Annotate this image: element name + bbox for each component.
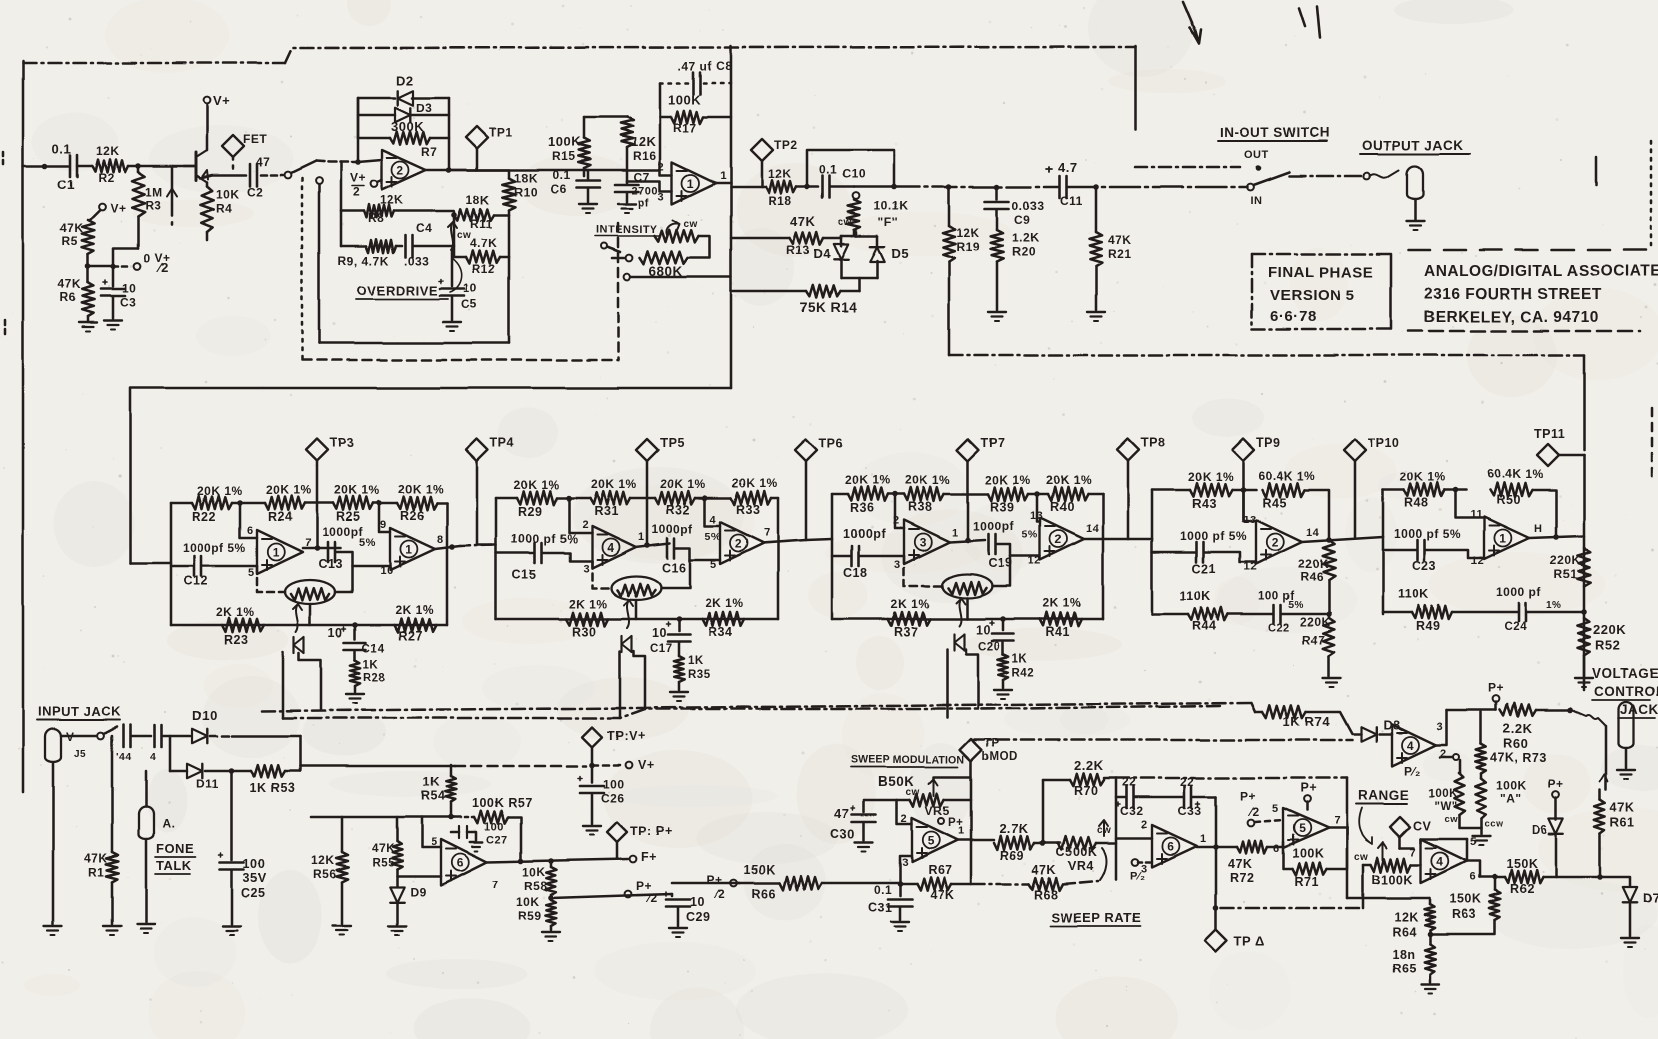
svg-text:12K: 12K bbox=[380, 193, 404, 207]
wire C2-switch bbox=[261, 174, 283, 177]
wire fb top bbox=[659, 83, 662, 117]
svg-text:1K: 1K bbox=[423, 775, 440, 789]
wire C22-R46 bbox=[1281, 613, 1329, 616]
wire R42-gnd bbox=[1002, 680, 1005, 688]
resistor R71 100K bbox=[1292, 863, 1326, 876]
svg-text:20K 1%: 20K 1% bbox=[660, 477, 706, 491]
svg-text:R27: R27 bbox=[398, 629, 422, 643]
wire R69 right bbox=[1034, 842, 1060, 845]
svg-text:14: 14 bbox=[1086, 523, 1100, 535]
svg-text:100K: 100K bbox=[1292, 847, 1324, 861]
svg-text:20K 1%: 20K 1% bbox=[514, 478, 560, 492]
svg-text:R39: R39 bbox=[990, 500, 1014, 514]
sheet border top-left dash-dot bbox=[23, 62, 285, 65]
svg-text:R32: R32 bbox=[666, 503, 690, 517]
svg-text:R3: R3 bbox=[145, 198, 161, 212]
wire C29-gnd bbox=[677, 907, 680, 926]
svg-text:6·6·78: 6·6·78 bbox=[1270, 308, 1316, 325]
wire TP8 stem bbox=[1127, 461, 1130, 539]
svg-text:1: 1 bbox=[687, 177, 694, 191]
wire R14 row bbox=[731, 290, 806, 293]
wire R14 right bbox=[840, 290, 859, 293]
svg-text:R68: R68 bbox=[1034, 888, 1058, 902]
wire st4 minus drop bbox=[1243, 490, 1256, 521]
wire st4b minus drop bbox=[1455, 490, 1484, 518]
svg-text:11: 11 bbox=[1470, 509, 1483, 521]
wire VR5 right bbox=[944, 799, 971, 802]
wire fb up bbox=[659, 117, 662, 170]
test point TP4 bbox=[466, 439, 488, 461]
svg-text:R20: R20 bbox=[1012, 245, 1036, 259]
svg-text:75K R14: 75K R14 bbox=[800, 300, 857, 315]
svg-text:1000pf: 1000pf bbox=[652, 522, 694, 536]
svg-text:ccw: ccw bbox=[1484, 819, 1504, 830]
wire C25-gnd bbox=[231, 870, 234, 924]
svg-text:R24: R24 bbox=[268, 510, 292, 524]
svg-text:100: 100 bbox=[603, 777, 625, 791]
resistor R14 75K bbox=[806, 285, 840, 298]
wire TP:P+ stem bbox=[616, 842, 619, 859]
terminal P+/2 bbox=[625, 891, 632, 898]
svg-text:C26: C26 bbox=[601, 791, 625, 805]
wire ldr1 stem bbox=[309, 604, 312, 625]
svg-text:R5: R5 bbox=[62, 234, 78, 248]
wire D11 left bbox=[170, 770, 187, 773]
pen scribble mark 2 bbox=[1299, 6, 1320, 38]
ground C26 bbox=[583, 825, 601, 827]
node TP5 out bbox=[644, 542, 650, 548]
transistor Q1 FET bbox=[195, 152, 198, 180]
svg-text:BERKELEY, CA. 94710: BERKELEY, CA. 94710 bbox=[1424, 309, 1599, 326]
wire R68 right bbox=[1063, 881, 1098, 884]
svg-text:10K: 10K bbox=[216, 187, 240, 201]
wire st3 minus drop bbox=[895, 494, 904, 528]
terminal V+/2 opamp bbox=[371, 181, 378, 188]
terminal P+ u10 bbox=[1304, 796, 1311, 803]
ground R59 bbox=[542, 931, 560, 933]
resistor R60 2.2K bbox=[1500, 703, 1536, 716]
sheet border right dashes 2 bbox=[1651, 408, 1654, 478]
svg-text:10: 10 bbox=[463, 281, 477, 295]
resistor R26 20K bbox=[397, 496, 437, 510]
wire R45 right bbox=[1304, 490, 1329, 539]
svg-text:C4: C4 bbox=[416, 221, 432, 235]
resistor R29 20K bbox=[496, 497, 517, 500]
resistor R45 60.4K bbox=[1262, 483, 1304, 497]
svg-text:P+: P+ bbox=[1300, 781, 1317, 795]
wire C31-gnd bbox=[899, 907, 902, 920]
wire R20-gnd bbox=[996, 262, 999, 310]
svg-text:C11: C11 bbox=[1060, 194, 1083, 208]
svg-text:C33: C33 bbox=[1178, 804, 1202, 818]
ground C5 bbox=[443, 321, 461, 323]
svg-text:P+: P+ bbox=[707, 873, 723, 887]
wire right-edge drop bbox=[1583, 355, 1586, 450]
wire R57 fb bbox=[451, 816, 474, 819]
potentiometer VR4 C500K bbox=[1058, 837, 1096, 850]
node R3 top bbox=[135, 163, 141, 169]
svg-text:R11: R11 bbox=[470, 217, 493, 231]
wire R40 right bbox=[1088, 493, 1103, 496]
capacitor C1 bbox=[69, 155, 72, 177]
svg-text:D2: D2 bbox=[396, 73, 414, 88]
wire u11 box bbox=[1400, 847, 1414, 850]
wire C15 to plus bbox=[542, 553, 592, 561]
svg-text:47K: 47K bbox=[58, 277, 82, 291]
terminal switch pivot bbox=[1247, 184, 1254, 191]
wire comp out up bbox=[1434, 710, 1447, 745]
diode D9 bbox=[390, 887, 404, 902]
svg-text:1: 1 bbox=[273, 546, 280, 560]
svg-text:TP9: TP9 bbox=[1256, 436, 1280, 450]
svg-text:1000 pf 5%: 1000 pf 5% bbox=[1180, 529, 1247, 543]
resistor R56 12K bbox=[336, 852, 349, 882]
ground R52 bbox=[1575, 677, 1593, 679]
svg-text:R61: R61 bbox=[1610, 816, 1634, 830]
svg-text:C13: C13 bbox=[318, 557, 342, 571]
resistor R41 2K bbox=[1040, 612, 1082, 626]
terminal jack tie bbox=[1364, 173, 1371, 180]
svg-text:220K: 220K bbox=[1300, 615, 1331, 629]
wire switch to jack bbox=[1289, 175, 1362, 178]
wire R38-R39 bbox=[944, 493, 988, 496]
svg-text:220K: 220K bbox=[1593, 622, 1626, 637]
svg-text:2.7K: 2.7K bbox=[999, 821, 1029, 836]
ground input jack bbox=[44, 925, 62, 927]
wire fb right vertical bbox=[448, 98, 451, 170]
potentiometer 100K A bbox=[1475, 779, 1486, 819]
svg-text:2: 2 bbox=[1272, 536, 1279, 550]
svg-text:47K: 47K bbox=[84, 851, 108, 865]
node out fb bbox=[446, 167, 452, 173]
svg-text:1K: 1K bbox=[1012, 653, 1028, 665]
svg-text:C1: C1 bbox=[57, 177, 75, 192]
wire R15 bottom bbox=[583, 168, 586, 176]
svg-text:D5: D5 bbox=[891, 246, 909, 261]
svg-text:D9: D9 bbox=[410, 885, 426, 899]
wire bus to R74 bbox=[1255, 711, 1262, 714]
wire R64 top bbox=[1347, 897, 1430, 900]
svg-text:R30: R30 bbox=[572, 625, 596, 639]
resistor R72 47K bbox=[1237, 841, 1267, 854]
wire capb-D10 bbox=[162, 735, 190, 738]
terminal pot F top bbox=[853, 193, 860, 200]
svg-text:20K 1%: 20K 1% bbox=[845, 473, 891, 487]
trimmer stub bbox=[171, 166, 174, 215]
svg-text:F+: F+ bbox=[641, 850, 657, 864]
resistor R32 20K bbox=[655, 491, 695, 505]
diode D6 bbox=[1549, 819, 1563, 834]
svg-text:20K 1%: 20K 1% bbox=[1046, 473, 1092, 487]
margin tick a bbox=[2, 152, 5, 168]
svg-text:18K: 18K bbox=[514, 171, 538, 185]
wiper ldr2 bbox=[627, 600, 629, 628]
wire phone jack tip bbox=[145, 771, 148, 807]
node R47 top bbox=[1326, 611, 1332, 617]
wire right drop bbox=[508, 257, 511, 343]
wire R24-R25 bbox=[305, 502, 333, 505]
svg-text:R33: R33 bbox=[736, 503, 760, 517]
svg-text:IN: IN bbox=[1250, 195, 1262, 207]
test point TP9 bbox=[1232, 439, 1254, 461]
svg-text:47K: 47K bbox=[1108, 233, 1132, 247]
wire overdrive input bbox=[316, 161, 358, 162]
wire comp out right bbox=[1440, 756, 1452, 759]
wire V+ to FET drain bbox=[206, 104, 209, 150]
wire fb box left mid bbox=[357, 98, 360, 138]
svg-text:C15: C15 bbox=[512, 568, 536, 582]
wire C19 right bbox=[996, 544, 1040, 556]
resistor R42 1K bbox=[1002, 641, 1005, 654]
wire ldr1 left stub bbox=[257, 566, 285, 592]
svg-text:10: 10 bbox=[652, 626, 667, 640]
ground D9 bbox=[388, 925, 406, 927]
svg-text:12: 12 bbox=[1471, 555, 1484, 567]
svg-text:C29: C29 bbox=[686, 910, 710, 924]
svg-text:5: 5 bbox=[248, 567, 255, 579]
node input junction bbox=[42, 163, 48, 169]
svg-text:1K R74: 1K R74 bbox=[1283, 714, 1330, 729]
resistor R1 47K bbox=[106, 852, 119, 882]
ground C7 bbox=[618, 203, 636, 205]
svg-text:3: 3 bbox=[1437, 721, 1444, 733]
wire R21-gnd bbox=[1095, 266, 1098, 310]
wire R55-D9 bbox=[396, 869, 399, 886]
wire int left stub bbox=[612, 257, 625, 260]
svg-text:2K 1%: 2K 1% bbox=[395, 603, 434, 617]
svg-text:4.7K: 4.7K bbox=[470, 236, 497, 250]
svg-text:R10: R10 bbox=[514, 185, 538, 199]
wire TP7 stem bbox=[967, 461, 970, 539]
wire R46-R47 bbox=[1328, 580, 1331, 614]
wire C18 to plus bbox=[859, 555, 904, 558]
resistor R34 2K bbox=[702, 612, 744, 626]
capacitor C2 47 bbox=[249, 164, 252, 186]
wire F bottom bbox=[853, 230, 856, 236]
svg-text:R4: R4 bbox=[216, 201, 232, 215]
svg-text:R38: R38 bbox=[908, 500, 932, 514]
svg-text:1: 1 bbox=[1499, 532, 1506, 546]
terminal F+ bbox=[630, 856, 637, 863]
ground C25 bbox=[223, 925, 241, 927]
wire R12 right bbox=[500, 256, 509, 259]
ground R56 bbox=[333, 925, 351, 927]
node fb bbox=[355, 159, 361, 165]
wire R5-R6 bbox=[87, 254, 90, 282]
wire W top bbox=[1459, 772, 1460, 775]
resistor R59 10K bbox=[550, 895, 553, 900]
capacitor C3 10 bbox=[112, 266, 115, 286]
wire st1b out bbox=[435, 546, 460, 549]
test point TP:P+ bbox=[607, 822, 627, 842]
resistor R67 47K bbox=[900, 883, 917, 886]
svg-text:R8: R8 bbox=[368, 211, 384, 225]
resistor R24 20K bbox=[265, 496, 305, 510]
svg-text:47K: 47K bbox=[1610, 801, 1634, 815]
wire overdrive bottom bbox=[319, 342, 509, 345]
svg-text:2316 FOURTH STREET: 2316 FOURTH STREET bbox=[1424, 286, 1602, 303]
svg-text:300K: 300K bbox=[391, 119, 424, 134]
node st4b minus bbox=[1452, 487, 1458, 493]
resistor R23 2K bbox=[222, 618, 264, 632]
resistor R12 4.7K bbox=[454, 256, 466, 259]
capacitor C11 4.7 bbox=[1058, 176, 1061, 198]
node st3 minus bbox=[892, 491, 898, 497]
wire R57 right bbox=[508, 817, 521, 861]
wire input line bbox=[23, 165, 68, 168]
svg-text:3: 3 bbox=[894, 559, 901, 571]
wire source-C2 bbox=[200, 175, 246, 178]
op-amp U1 mixer bbox=[672, 162, 716, 204]
wire stage2 frame left bbox=[495, 498, 498, 619]
svg-text:20K 1%: 20K 1% bbox=[197, 484, 243, 498]
svg-text:2.2K: 2.2K bbox=[1074, 758, 1104, 773]
wire FET TP stem bbox=[232, 157, 235, 173]
wire R35-gnd bbox=[678, 682, 681, 690]
svg-text:"A": "A" bbox=[1500, 792, 1522, 806]
svg-text:10: 10 bbox=[380, 565, 393, 577]
test point TP8 bbox=[1117, 439, 1139, 461]
svg-text:R71: R71 bbox=[1294, 875, 1318, 889]
wire U8 out bbox=[956, 839, 994, 842]
wire D9-gnd bbox=[396, 904, 399, 924]
wire R6-gnd bbox=[87, 316, 90, 322]
diode box top bbox=[841, 235, 877, 238]
wiper R11 cw bbox=[451, 222, 453, 250]
svg-text:C6: C6 bbox=[550, 182, 566, 196]
wire TP5 stem bbox=[646, 461, 649, 543]
svg-text:D4: D4 bbox=[813, 246, 831, 261]
node R19 bbox=[946, 184, 952, 190]
op-amp U5b stage3 bbox=[1040, 518, 1084, 560]
wire R52-gnd bbox=[1583, 656, 1586, 676]
svg-text:12K: 12K bbox=[311, 853, 335, 867]
resistor R37 2K bbox=[888, 612, 930, 626]
wire osc out row bbox=[1197, 846, 1237, 849]
wire R19 down bbox=[948, 262, 951, 355]
wire R7 right bbox=[430, 137, 449, 140]
resistor R38 20K bbox=[904, 487, 944, 501]
op-amp U5a stage3 bbox=[904, 520, 950, 564]
svg-text:V+: V+ bbox=[638, 758, 655, 772]
svg-text:TP5: TP5 bbox=[660, 436, 684, 450]
resistor R66 150K bbox=[738, 882, 780, 885]
svg-text:R72: R72 bbox=[1230, 871, 1254, 885]
svg-text:5: 5 bbox=[928, 834, 935, 848]
svg-text:R41: R41 bbox=[1046, 625, 1070, 639]
svg-text:10: 10 bbox=[122, 281, 136, 295]
svg-text:20K 1%: 20K 1% bbox=[1188, 470, 1234, 484]
svg-text:5: 5 bbox=[1470, 836, 1477, 848]
resistor R3 1M bbox=[137, 166, 140, 172]
wire out to right edge bbox=[1583, 455, 1586, 690]
wire stage3 frame left bbox=[831, 494, 834, 619]
wire TP6 stem bbox=[805, 461, 808, 540]
wire R32-R33 bbox=[695, 497, 731, 500]
svg-text:R54: R54 bbox=[421, 789, 445, 803]
svg-text:100K R57: 100K R57 bbox=[472, 796, 532, 810]
svg-text:TP7: TP7 bbox=[981, 436, 1005, 450]
svg-text:2: 2 bbox=[735, 537, 742, 551]
node st4 minus bbox=[1240, 487, 1246, 493]
wire plus input bbox=[377, 180, 382, 182]
wire TP9 stem bbox=[1242, 461, 1245, 520]
node TP3 out bbox=[314, 545, 320, 551]
wire C21 to plus bbox=[1204, 552, 1256, 562]
wire U10 out bbox=[1329, 827, 1347, 830]
svg-text:R28: R28 bbox=[363, 672, 386, 684]
node C3 top bbox=[110, 263, 116, 269]
svg-text:2.2K: 2.2K bbox=[1503, 721, 1533, 736]
svg-text:1: 1 bbox=[1200, 833, 1207, 845]
svg-text:R43: R43 bbox=[1192, 497, 1216, 511]
svg-text:150K: 150K bbox=[1450, 892, 1482, 906]
svg-text:R46: R46 bbox=[1300, 570, 1324, 584]
op-amp U9 integ bbox=[1152, 825, 1197, 867]
capacitor C series a bbox=[122, 725, 125, 747]
wire stage3 bottom bbox=[832, 618, 1103, 621]
svg-text:C9: C9 bbox=[1014, 213, 1030, 227]
wire R70 right bbox=[1104, 777, 1116, 780]
svg-text:1M: 1M bbox=[145, 185, 163, 199]
capacitor C8 bbox=[692, 72, 695, 94]
ldr LDR1 bbox=[285, 580, 335, 604]
test point TP3 bbox=[306, 439, 328, 461]
svg-text:VOLTAGE: VOLTAGE bbox=[1592, 666, 1658, 681]
svg-text:2: 2 bbox=[1141, 819, 1148, 831]
svg-text:R50: R50 bbox=[1496, 493, 1520, 507]
svg-text:.47 uf C8: .47 uf C8 bbox=[678, 59, 733, 73]
svg-text:VR4: VR4 bbox=[1068, 859, 1094, 873]
wire CV stem bbox=[1399, 837, 1402, 848]
svg-text:10: 10 bbox=[690, 895, 705, 909]
wire ldr2 right bbox=[661, 560, 690, 588]
svg-text:1: 1 bbox=[638, 531, 645, 543]
wire TP10 stem bbox=[1354, 461, 1357, 537]
wire R59-gnd bbox=[550, 926, 553, 930]
svg-text:R26: R26 bbox=[400, 509, 424, 523]
ldr LDR2 bbox=[611, 576, 661, 600]
svg-text:TP Δ: TP Δ bbox=[1234, 934, 1265, 949]
wire st3a out bbox=[950, 540, 985, 542]
capacitor C4 .033 bbox=[396, 245, 402, 248]
terminal switch lower contact bbox=[316, 178, 323, 185]
svg-text:D6: D6 bbox=[1532, 825, 1548, 837]
ground C6 bbox=[579, 203, 597, 205]
svg-text:C500K: C500K bbox=[1056, 845, 1097, 859]
svg-text:V+: V+ bbox=[110, 201, 126, 215]
svg-text:C20: C20 bbox=[978, 641, 1001, 653]
svg-text:R36: R36 bbox=[850, 501, 874, 515]
svg-text:3: 3 bbox=[920, 536, 927, 550]
svg-text:R29: R29 bbox=[518, 505, 542, 519]
wire loop above pot bbox=[807, 150, 894, 187]
wire mixer out bbox=[716, 182, 731, 185]
svg-text:OUTPUT JACK: OUTPUT JACK bbox=[1362, 138, 1464, 153]
wire C12 to plus bbox=[202, 565, 257, 568]
svg-text:OUT: OUT bbox=[1244, 149, 1269, 161]
test point TP10 bbox=[1344, 439, 1366, 461]
wire U10 fb bbox=[1326, 828, 1347, 869]
svg-text:D10: D10 bbox=[192, 708, 217, 723]
svg-text:47K: 47K bbox=[60, 221, 84, 235]
wire R71 left bbox=[1283, 845, 1292, 869]
node R21 bbox=[1093, 184, 1099, 190]
resistor R73 47K bbox=[1480, 712, 1483, 744]
capacitor C9 0.033 bbox=[996, 187, 999, 199]
terminal bypass switch contact bbox=[285, 172, 292, 179]
capacitor C25 100 bbox=[220, 861, 244, 864]
